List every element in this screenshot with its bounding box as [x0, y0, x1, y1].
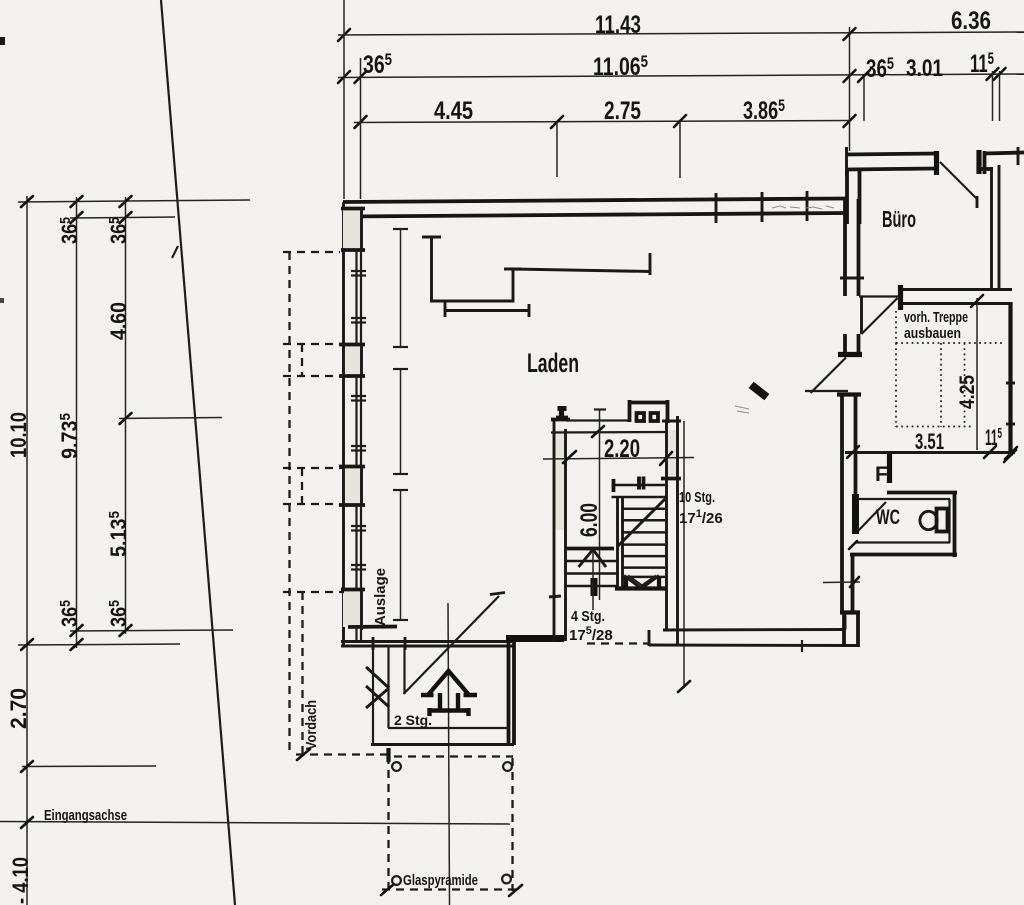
svg-text:2 Stg.: 2 Stg.: [394, 712, 432, 728]
svg-text:Laden: Laden: [527, 348, 579, 378]
right dim bottom tick: [678, 681, 690, 692]
window glazing band 4 bottom stub: [355, 627, 357, 641]
room top wall left post: [898, 285, 903, 310]
svg-text:WC: WC: [876, 506, 900, 529]
top dim ticks: [338, 28, 1006, 128]
svg-text:4.60: 4.60: [106, 302, 131, 340]
svg-text:11.43: 11.43: [595, 11, 641, 39]
right dim line x684: [683, 421, 685, 688]
WC bottom left tick: [849, 541, 857, 549]
dotted stub left upper: [895, 311, 897, 343]
centre line top tick: [594, 408, 606, 410]
svg-text:- 4.10: - 4.10: [8, 857, 33, 904]
Buero left wall inner: [858, 170, 862, 200]
left dim line 2 (9.73): [76, 197, 78, 648]
svg-text:4.45: 4.45: [434, 97, 473, 125]
display box dashed vertical 2c (vordach): [301, 592, 303, 754]
corner slash bottom right: [1004, 450, 1016, 462]
Laden right wall upper seg outer: [843, 199, 847, 296]
tick slash y582: [850, 577, 859, 587]
toilet bowl: [920, 511, 937, 529]
svg-text:Glaspyramide: Glaspyramide: [403, 873, 478, 889]
bolt symbol: [556, 406, 568, 418]
handrail top bar: [630, 401, 668, 405]
2.20 ticks: [563, 451, 576, 463]
svg-text:6.00: 6.00: [576, 503, 603, 537]
SITE: [0, 37, 5, 45]
left dim line 1 (10.10): [26, 196, 28, 905]
room right wall ticks: [1006, 382, 1015, 385]
Buero door swing diagonal: [940, 162, 977, 199]
top dim rail 2 (36.5 / 11.06): [338, 74, 1024, 78]
top wall outer line: [343, 199, 846, 203]
svg-text:10 Stg.: 10 Stg.: [679, 489, 715, 506]
Laden right wall upper seg inner: [857, 199, 861, 296]
Buero top wall left end ticks: [845, 147, 848, 176]
display dashed stub y252: [283, 251, 340, 253]
gate mark double bars: [637, 477, 641, 490]
svg-text:6.36: 6.36: [951, 7, 991, 35]
duct lower right tick: [528, 304, 531, 317]
stair wall tick y597: [549, 596, 561, 597]
bottom wall ticks: [372, 637, 375, 650]
top dim rail 3 (4.45/2.75/3.86): [354, 121, 851, 123]
WC bottom inner: [856, 541, 950, 543]
Buero top right tick: [1017, 147, 1020, 165]
left dims bottom rail upper: [70, 630, 233, 631]
window glazing band 1: [355, 250, 357, 344]
svg-text:11.065: 11.065: [593, 52, 648, 81]
dim wall line y452 (3.51 / 11.5): [845, 451, 1015, 454]
svg-text:3.01: 3.01: [906, 55, 943, 82]
entrance bottom step line: [388, 727, 510, 729]
dim line x977 (4.25): [976, 298, 978, 450]
handrail post right: [666, 400, 670, 423]
dotted inner vertical 1: [940, 343, 942, 427]
glaspyramide dashed right: [511, 758, 513, 891]
window glazing band 3: [355, 505, 357, 589]
svg-text:Auslage: Auslage: [372, 568, 389, 626]
stair right wall inner: [665, 421, 668, 630]
entrance door leaf vertical: [403, 646, 405, 694]
door1 leaf: [860, 297, 863, 335]
Buero top-right inner stub: [979, 167, 994, 171]
svg-text:Büro: Büro: [882, 206, 916, 232]
duct tick right end: [649, 253, 652, 275]
WC left wall block: [852, 494, 859, 534]
svg-text:Eingangsachse: Eingangsachse: [44, 807, 127, 824]
window glazing band 2: [355, 376, 357, 466]
right wall top tick: [662, 420, 681, 423]
duct lower left tick: [444, 302, 447, 317]
landing bold line: [566, 547, 614, 551]
Buero right wall outer: [998, 165, 1001, 289]
glaspyramide dashed top: [394, 755, 513, 757]
svg-text:2.20: 2.20: [604, 435, 640, 463]
stringer verticals: [616, 497, 619, 589]
duct tick mid: [504, 268, 521, 271]
right wall seg3 inner: [854, 396, 858, 494]
2.20 dim line: [543, 458, 694, 460]
svg-text:4.25: 4.25: [956, 375, 979, 409]
top wall inner line: [343, 213, 846, 217]
top wall tick x807: [806, 191, 809, 221]
tick on x977 top: [971, 295, 983, 307]
corner pier NW: [343, 208, 362, 250]
handrail post left: [628, 400, 632, 422]
wall mid cap thick: [838, 352, 862, 357]
WC top outer wall: [887, 491, 957, 495]
room right wall: [1008, 302, 1012, 456]
glaspyramide dashed bottom: [382, 888, 518, 890]
glaspyramide bottom ticks: [381, 884, 394, 895]
bottom right inner tick: [844, 614, 847, 630]
tick on y432: [592, 426, 604, 437]
entry arrow bold: [421, 671, 477, 716]
going diagonal: [617, 497, 667, 547]
vordach dashed bottom: [296, 753, 390, 755]
down V arrows: [624, 576, 659, 589]
handrail square 1: [637, 413, 645, 421]
tick line y582: [823, 581, 860, 584]
svg-text:F: F: [875, 463, 888, 486]
pier 3: [343, 466, 362, 505]
wall sill tick y278: [840, 277, 864, 280]
stairwell centre dim line: [599, 409, 601, 600]
upper flight treads: [612, 485, 666, 577]
right wall seg4 inner: [856, 613, 860, 647]
left dims bottom rail lower: [18, 644, 180, 645]
dotted left: [895, 343, 897, 427]
vordach tick plus marks: [297, 749, 310, 760]
left dims mid tick rail: [119, 418, 222, 419]
RIGHTSIDE: [649, 147, 1024, 652]
left dim ticks: [21, 196, 132, 828]
stair left wall outer: [553, 419, 556, 641]
lower flight treads (4 Stg): [566, 561, 617, 586]
stair top inner line y420: [566, 419, 629, 421]
tread end bold stub: [612, 479, 616, 492]
bottom bold bar: [615, 586, 666, 590]
Eingangsachse axis line: [0, 822, 510, 825]
dotted bottom: [896, 426, 973, 428]
glaspyramide corner circles: [392, 762, 401, 771]
interior duct polyline upper: [432, 237, 651, 301]
left dims 2.70 lower rail: [22, 765, 156, 768]
WC right outer: [953, 493, 957, 558]
svg-text:2.75: 2.75: [604, 97, 641, 125]
pencil scribble on wall: [772, 206, 834, 209]
Buero top wall outer: [846, 154, 937, 155]
stair right wall shading: [668, 430, 677, 475]
entrance left thin wall: [372, 646, 374, 744]
WC bottom outer: [850, 553, 957, 557]
interior dim chain seg2: [400, 369, 402, 474]
door2 swing diagonal: [811, 358, 847, 394]
svg-text:10.10: 10.10: [6, 412, 31, 458]
WC right inner: [948, 499, 950, 543]
pier 2: [343, 344, 362, 376]
svg-text:175/28: 175/28: [569, 625, 613, 644]
door1 head line: [859, 295, 898, 297]
display dashed stub y592: [283, 591, 344, 593]
display box dashed vertical 2a: [301, 344, 303, 376]
chevron marks: [366, 667, 389, 708]
top extension verticals: [343, 0, 345, 199]
pier 4 SW corner: [343, 589, 362, 627]
Buero right wall inner: [990, 167, 993, 289]
ticks on y452: [847, 446, 859, 458]
stair right wall outer: [676, 416, 679, 645]
display box dashed vertical main: [288, 252, 290, 754]
Buero door left post: [934, 151, 939, 175]
entrance bottom outer line: [371, 743, 514, 746]
bold dash on centre line: [591, 578, 598, 596]
bottom wall line upper: [341, 640, 512, 643]
right wall seg4 outer: [842, 613, 846, 647]
stair left wall shading: [554, 430, 566, 530]
WC door swing: [858, 502, 886, 531]
bottom wall right left stubs: [648, 630, 651, 646]
wall mid seg: [843, 334, 847, 355]
display dashed stub y468: [283, 467, 344, 469]
dashed bottom opening: [587, 642, 648, 644]
left dim line 3 (4.60/5.13): [125, 197, 127, 634]
right wall seg3 outer: [840, 396, 844, 612]
vorh Treppe room top wall lower: [901, 302, 1012, 305]
entrance-stair thick sill: [506, 635, 564, 642]
top dim rail 1 (11.43 / 6.36): [338, 32, 1024, 35]
svg-text:Vordach: Vordach: [303, 700, 320, 750]
interior dim chain seg3: [400, 490, 402, 620]
door1 swing diagonal: [862, 298, 898, 334]
property boundary diagonal line: [161, 0, 235, 905]
BUILDING: [283, 191, 846, 896]
Buero top wall inner: [846, 169, 937, 170]
Buero left wall junction ticks: [845, 200, 849, 224]
bottom wall right outer line: [649, 644, 859, 647]
bottom wall line lower: [341, 645, 514, 648]
duct tick top-left: [422, 236, 441, 239]
arrow centre line: [592, 550, 594, 610]
svg-text:4 Stg.: 4 Stg.: [571, 608, 605, 625]
glaspyramide dashed left: [387, 756, 389, 891]
svg-text:ausbauen: ausbauen: [904, 325, 961, 342]
entrance right wall thick: [507, 641, 511, 745]
WC top inner line: [858, 498, 950, 500]
door2 sill cap: [837, 392, 861, 396]
entrance left inner line: [387, 646, 389, 728]
left wall outer line: [342, 202, 345, 646]
svg-text:vorh. Treppe: vorh. Treppe: [904, 309, 968, 326]
entrance door swing diagonal: [404, 596, 500, 694]
vorh Treppe room top wall upper: [898, 288, 1012, 291]
dotted stair area top: [896, 342, 1004, 344]
left dims top rail 2: [70, 217, 175, 218]
dotted inner vertical 2: [964, 343, 966, 427]
handrail square 2: [651, 413, 659, 421]
bottom wall right inner line: [663, 628, 845, 631]
right wall tick y478: [661, 477, 681, 481]
display box dashed vertical 2b: [301, 468, 303, 504]
up arrow chevron: [579, 550, 607, 568]
wall seg5 inner below WC: [851, 556, 855, 612]
axis vertical entrance centreline: [448, 603, 450, 905]
toilet cistern: [937, 509, 948, 532]
display dashed stub y376: [283, 375, 340, 377]
duct lower line: [445, 309, 529, 312]
swing diagonal top tick: [490, 593, 505, 595]
stair left wall top cap: [551, 418, 570, 422]
Buero top wall right segment: [984, 153, 1024, 154]
wall cap y612: [840, 610, 860, 614]
svg-text:2.70: 2.70: [6, 688, 31, 729]
display dashed stub y504: [283, 503, 340, 505]
interior dim chain x400 seg1: [400, 229, 402, 347]
stair top inner line y432: [551, 431, 667, 434]
black blob mark: [749, 382, 770, 401]
bottom bar stubs: [624, 576, 628, 590]
mullion ticks: [351, 271, 366, 570]
display dashed stub y344: [283, 343, 344, 345]
pencil smudge: [735, 406, 749, 413]
bottom right tick x802: [801, 640, 803, 652]
Buero left wall outer: [845, 170, 849, 200]
flue bar: [887, 453, 892, 483]
STAIR: [543, 400, 723, 692]
svg-text:171/26: 171/26: [679, 508, 723, 527]
stair left wall inner: [564, 429, 567, 641]
Buero door right post: [976, 150, 981, 174]
svg-text:3.51: 3.51: [915, 429, 944, 454]
Buero door diagonal end stub: [976, 196, 979, 208]
door2 leaf line: [805, 390, 848, 392]
top wall tick x716: [715, 193, 718, 223]
small slash mark near diagonal: [172, 246, 178, 258]
left dims top rail: [18, 200, 250, 202]
top wall tick x762: [761, 192, 764, 222]
